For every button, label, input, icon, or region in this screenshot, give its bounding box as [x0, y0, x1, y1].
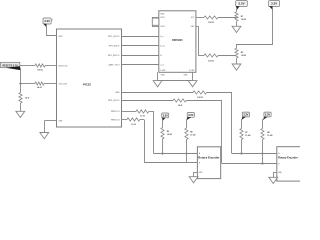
resistor R7 pullup stack — [240, 112, 251, 153]
ground enc2 — [269, 177, 278, 183]
net label RESET/3.3 TV (inverted) — [1, 62, 22, 70]
ground U3 left — [153, 81, 162, 87]
node dot divider junction — [19, 82, 21, 84]
svg-text:S_out: S_out — [160, 45, 165, 48]
svg-text:XTAL: XTAL — [160, 13, 164, 16]
svg-text:R5: R5 — [167, 131, 169, 133]
svg-text:1k Ω: 1k Ω — [178, 105, 183, 107]
node dot R7/enc2A — [240, 152, 242, 154]
svg-text:3.3V: 3.3V — [44, 19, 50, 23]
resistor R2 10k — [235, 48, 247, 64]
svg-text:PIC32: PIC32 — [83, 83, 91, 87]
ground structure 1 — [232, 26, 241, 32]
wire enc2 B — [222, 163, 277, 165]
wire UART_TX — [122, 64, 159, 66]
wire VSS to ground — [44, 121, 56, 133]
wire SPI1_SDI — [122, 45, 159, 47]
wire SPI1_SDO — [122, 55, 159, 57]
svg-text:RPB1 IO1: RPB1 IO1 — [111, 111, 120, 113]
resistor R9 1k pulldown — [19, 83, 30, 111]
svg-text:GND: GND — [115, 92, 120, 94]
op-amp U3 BRF6300 box — [159, 11, 196, 73]
svg-text:10 kΩ: 10 kΩ — [241, 55, 247, 57]
svg-text:1k Ω: 1k Ω — [131, 124, 136, 126]
svg-text:SPI1_SDI IO: SPI1_SDI IO — [109, 46, 120, 48]
svg-text:1k Ω: 1k Ω — [140, 115, 145, 117]
resistor R3 100 — [20, 64, 57, 71]
svg-text:3.3V: 3.3V — [238, 2, 244, 6]
resistor R6 pullup stack — [185, 113, 196, 163]
svg-text:4k Ω: 4k Ω — [37, 86, 42, 89]
svg-text:100 Ω: 100 Ω — [208, 60, 214, 62]
svg-text:10 kΩ: 10 kΩ — [190, 135, 196, 137]
svg-text:VDD: VDD — [59, 36, 64, 38]
svg-text:100 Ω: 100 Ω — [197, 97, 203, 99]
resistor R15 1k (enc1 B wire) — [122, 118, 145, 126]
svg-text:2 GND: 2 GND — [160, 70, 166, 72]
svg-text:SPI2_SCK IO: SPI2_SCK IO — [108, 100, 120, 102]
power flag 3.3V (top left) — [43, 18, 51, 24]
svg-text:R7: R7 — [245, 132, 247, 134]
svg-text:100 Ω: 100 Ω — [208, 22, 214, 24]
svg-text:1k Ω: 1k Ω — [25, 98, 30, 100]
svg-text:3.3V: 3.3V — [271, 2, 277, 6]
U3 left pin labels — [160, 13, 166, 73]
resistor R4 4k — [20, 82, 57, 89]
svg-text:3 GND: 3 GND — [189, 70, 195, 72]
svg-text:GND: GND — [161, 75, 166, 77]
wire enc1 B down — [144, 120, 146, 163]
svg-text:R2: R2 — [241, 52, 243, 54]
svg-text:10 kΩ: 10 kΩ — [241, 19, 247, 21]
svg-text:10 kΩ: 10 kΩ — [267, 135, 273, 137]
wire enc1 gnd — [194, 172, 198, 177]
resistor R1 10k — [235, 6, 247, 26]
svg-text:GND: GND — [184, 75, 189, 77]
svg-text:MCLR IO2: MCLR IO2 — [59, 65, 68, 67]
U2 right pin labels — [108, 36, 120, 122]
svg-text:10 kΩ: 10 kΩ — [245, 135, 251, 137]
svg-text:OSC2: OSC2 — [160, 26, 165, 28]
svg-text:OSC1 IO2: OSC1 IO2 — [59, 83, 68, 85]
node dot R8/enc2B — [261, 162, 263, 164]
resistor R5 pullup stack — [161, 113, 173, 153]
net flag 3.3V (structure 2) — [269, 1, 280, 7]
svg-text:RPB2 IO2: RPB2 IO2 — [111, 120, 120, 122]
ground VSS — [40, 133, 49, 139]
svg-text:UART_TX IO: UART_TX IO — [108, 64, 120, 67]
svg-text:3.3V: 3.3V — [163, 114, 168, 117]
svg-text:3.3V: 3.3V — [188, 114, 193, 117]
U3 right pin labels — [189, 17, 195, 72]
resistor R8 pullup stack — [261, 112, 273, 163]
ground under divider — [16, 111, 25, 117]
svg-text:S_in: S_in — [160, 36, 163, 38]
node dot R8 crossing enc2A — [262, 153, 264, 155]
ground U3 right — [188, 81, 197, 87]
switch SW1 rotary encoder box — [197, 147, 220, 179]
svg-text:Rotary Encoder: Rotary Encoder — [278, 155, 298, 159]
resistor R14 1k (enc1 A wire) — [122, 110, 154, 118]
crystal Y1 — [152, 17, 159, 26]
svg-text:10 kΩ: 10 kΩ — [167, 134, 173, 136]
U2 left pin labels — [59, 36, 68, 123]
svg-text:Rotary Encoder: Rotary Encoder — [198, 155, 219, 159]
wire enc2 A down — [231, 92, 233, 153]
wire U3 gnd stubs — [158, 72, 193, 80]
svg-text:BRF6300: BRF6300 — [172, 39, 183, 42]
wire SPI1_SCK — [122, 36, 159, 38]
wire enc2 B down — [221, 100, 223, 163]
svg-text:R6: R6 — [190, 131, 192, 133]
wire label down to divider — [20, 68, 22, 83]
svg-text:C_in: C_in — [160, 65, 164, 67]
ground enc1 — [189, 177, 198, 183]
switch SW2 rotary encoder box — [277, 147, 304, 181]
node dot R6 crossing enc1A — [186, 153, 188, 155]
svg-text:100 Ω: 100 Ω — [37, 69, 43, 71]
net flag 3.3V (structure 1) — [236, 1, 248, 7]
wire enc1 A down — [153, 111, 155, 153]
resistor R13 1k (enc2 B wire) — [122, 99, 222, 107]
svg-text:3.3V: 3.3V — [243, 113, 248, 116]
resistor R12 100 (enc2 A wire) — [122, 91, 232, 99]
ground structure 2 — [232, 64, 241, 70]
svg-text:OSC1: OSC1 — [160, 17, 165, 19]
wire URX down — [196, 26, 204, 55]
svg-text:R8: R8 — [267, 132, 269, 134]
resistor R10 100 on UTX — [196, 16, 237, 24]
wire enc2 gnd — [273, 172, 277, 177]
wire flag to pin VDD — [43, 24, 56, 36]
svg-text:3.3V: 3.3V — [265, 113, 270, 116]
svg-text:SPI1_SDO IO: SPI1_SDO IO — [108, 55, 120, 57]
resistor R11 100 on URX — [204, 54, 237, 62]
wire enc1 B — [144, 162, 197, 164]
wire enc1 A — [153, 153, 197, 155]
node dot R5/enc1A — [161, 152, 163, 154]
svg-text:SPI1_SCK IO: SPI1_SCK IO — [108, 36, 120, 38]
wire enc2 A — [232, 153, 277, 155]
op-amp U2 PIC32 microcontroller box — [50, 20, 122, 128]
wire flag2 down and left — [237, 6, 273, 48]
svg-text:R1: R1 — [241, 16, 243, 18]
